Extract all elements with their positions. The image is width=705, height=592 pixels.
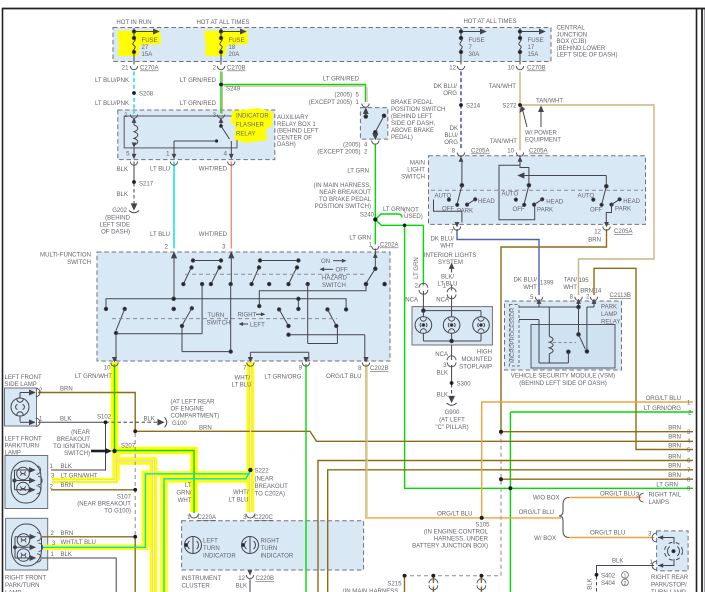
mfs pin2 entry [172, 253, 177, 258]
svg-text:(BEHIND LEFT SIDE OF DASH): (BEHIND LEFT SIDE OF DASH) [519, 381, 607, 387]
svg-text:(NEAR: (NEAR [255, 477, 274, 483]
cluster C220B connector [248, 570, 253, 575]
svg-text:OFF: OFF [336, 268, 348, 274]
svg-text:BREAKOUT: BREAKOUT [57, 437, 91, 443]
stoplamp bulb 2 [443, 317, 460, 334]
svg-text:BLK: BLK [61, 464, 72, 470]
svg-text:BLK: BLK [117, 167, 128, 173]
svg-text:G202: G202 [112, 208, 127, 214]
svg-text:LT BLU: LT BLU [229, 498, 249, 504]
mfs lower rails [116, 333, 202, 335]
svg-text:S102: S102 [97, 415, 112, 421]
svg-text:RELAY BOX 1: RELAY BOX 1 [277, 122, 316, 128]
svg-text:WHT/LT BLU: WHT/LT BLU [61, 540, 96, 546]
svg-text:NCA: NCA [436, 298, 450, 304]
svg-text:LT GRN/RED: LT GRN/RED [323, 77, 360, 83]
svg-text:HEAD: HEAD [623, 199, 640, 205]
wire lt blu stripe of org wire [367, 364, 369, 517]
svg-text:BOX (CJB): BOX (CJB) [557, 39, 587, 45]
fuse 7 [459, 28, 485, 65]
svg-text:SWITCH: SWITCH [401, 175, 425, 181]
wire BLK stoplamp pin2 into box [422, 291, 424, 311]
svg-text:BRN: BRN [668, 435, 681, 441]
svg-text:TURN: TURN [203, 546, 220, 552]
svg-text:TO BRAKE PEDAL: TO BRAKE PEDAL [319, 197, 372, 203]
wire WHT S207 branch to lamp pin3 [52, 452, 116, 481]
microprocessor box [510, 305, 520, 367]
wire LT GRN row9 branch down off-page [509, 488, 511, 592]
svg-text:NCA: NCA [435, 352, 449, 358]
svg-text:SWITCH): SWITCH) [64, 451, 90, 457]
svg-text:C205A: C205A [529, 149, 548, 155]
svg-text:PARK: PARK [457, 209, 473, 215]
node S240 [373, 217, 377, 221]
svg-text:WHT: WHT [178, 498, 192, 504]
svg-text:BRN: BRN [60, 387, 73, 393]
hl: S222 left to right front lamp pin3 [145, 471, 250, 476]
mfs pin3 entry [229, 253, 234, 258]
wire LT GRN stoplamp pin2 drop [422, 225, 424, 285]
stoplamp internals [422, 307, 481, 343]
svg-text:(BEHIND LOWER: (BEHIND LOWER [557, 46, 606, 52]
highlights [44, 30, 273, 592]
svg-text:BRN: BRN [668, 444, 681, 450]
svg-text:(EXCEPT 2005): (EXCEPT 2005) [309, 100, 352, 106]
svg-text:RELAY: RELAY [236, 132, 255, 138]
fuse 27 highlight [117, 30, 161, 56]
hl: MFS pin10 wire down to S207 [111, 362, 119, 451]
svg-text:HEAD: HEAD [478, 199, 495, 205]
node S207 [112, 449, 116, 453]
svg-text:ORG/LT BLU: ORG/LT BLU [600, 492, 635, 498]
svg-text:10: 10 [507, 149, 514, 155]
mfs dashed linkage 2 [112, 318, 337, 320]
svg-text:LT: LT [185, 483, 192, 489]
svg-text:BRAKE PEDAL: BRAKE PEDAL [391, 100, 434, 106]
svg-text:WHT/: WHT/ [235, 376, 251, 382]
flasher exits [133, 148, 135, 158]
high mounted stoplamp box [412, 307, 492, 345]
svg-text:TAN/: TAN/ [564, 278, 578, 284]
mls section3 [605, 176, 607, 187]
svg-text:G100: G100 [172, 421, 187, 427]
svg-text:LT BLU/PNK: LT BLU/PNK [95, 101, 129, 107]
mfs pin1 entry hazard [374, 252, 376, 269]
svg-text:LT BLU: LT BLU [232, 383, 252, 389]
ground G202 [129, 204, 139, 213]
svg-text:HOT AT ALL TIMES: HOT AT ALL TIMES [463, 19, 516, 25]
svg-text:20A: 20A [229, 52, 241, 58]
svg-text:FUSE: FUSE [469, 38, 485, 44]
svg-text:S214: S214 [466, 104, 481, 110]
svg-text:S249: S249 [226, 87, 241, 93]
svg-text:195: 195 [579, 278, 590, 284]
svg-text:USED): USED) [404, 214, 423, 220]
multi-function switch internals [104, 252, 386, 361]
svg-text:S240: S240 [360, 213, 375, 219]
svg-text:STOPLAMP: STOPLAMP [459, 365, 492, 371]
svg-text:COMPARTMENT): COMPARTMENT) [171, 413, 220, 419]
wire ORG/LT BLU row1 from right edge down to S105 [482, 402, 693, 518]
connector right rear lamp pin3 [652, 533, 656, 542]
mfs dashed linkage 1 [185, 273, 364, 275]
svg-text:BRN: BRN [61, 483, 74, 489]
svg-text:PARK/STOP/: PARK/STOP/ [651, 583, 687, 589]
connector C270B-10 [516, 66, 523, 70]
wire BLK S300 to G900 dashed [451, 384, 453, 399]
wire BRN left lamps vertical dashed segment [134, 433, 136, 537]
svg-text:CLUSTER: CLUSTER [182, 584, 211, 590]
svg-text:PEDAL): PEDAL) [391, 135, 413, 141]
svg-text:LT GRN/RED: LT GRN/RED [180, 78, 217, 84]
instrument cluster box [182, 521, 364, 570]
node S105 [480, 516, 484, 520]
svg-text:10: 10 [104, 366, 111, 372]
right front lamp pin wires [42, 536, 50, 538]
svg-text:AUTO: AUTO [435, 194, 452, 200]
connector BPP in [362, 104, 369, 108]
flasher coil [134, 125, 138, 145]
connector BPP out [372, 141, 379, 145]
svg-text:TURN: TURN [261, 546, 278, 552]
svg-text:MICROPROCESSOR: MICROPROCESSOR [510, 308, 516, 363]
svg-text:HARNESS, UNDER: HARNESS, UNDER [434, 537, 489, 543]
svg-text:12: 12 [449, 66, 456, 72]
svg-text:(AT LEFT REAR: (AT LEFT REAR [171, 399, 216, 405]
svg-text:OF DASH): OF DASH) [101, 230, 130, 236]
svg-text:W/O BOX: W/O BOX [533, 496, 560, 502]
svg-text:MULTI-FUNCTION: MULTI-FUNCTION [40, 253, 91, 259]
svg-text:LEFT FRONT: LEFT FRONT [5, 375, 42, 381]
svg-text:BLU/: BLU/ [445, 133, 459, 139]
node brn row junction at 501,431.7 [499, 430, 503, 434]
svg-text:(BEHIND: (BEHIND [105, 216, 130, 222]
hl: S207 down-left to left park lamp pin3 [112, 451, 120, 481]
BPP switch internals [364, 109, 386, 140]
svg-text:SWITCH: SWITCH [322, 283, 346, 289]
svg-text:SWITCH: SWITCH [67, 260, 91, 266]
node S240 right drop junction [403, 224, 407, 228]
node S300 [450, 381, 454, 385]
wire BRN row3 right [501, 431, 693, 433]
hl: S207 right white wire off-page [114, 461, 154, 592]
svg-text:LT GRN: LT GRN [656, 483, 678, 489]
svg-text:INTERIOR LIGHTS: INTERIOR LIGHTS [424, 253, 476, 259]
left front park/turn lamp bulb [11, 461, 41, 503]
svg-text:ORG/LT BLU: ORG/LT BLU [519, 510, 554, 516]
cluster left turn indicator bulb [185, 537, 202, 554]
svg-text:NCA: NCA [405, 298, 419, 304]
left front park/turn lamp box [5, 456, 48, 509]
svg-text:LT GRN: LT GRN [349, 236, 371, 242]
svg-text:LAMP: LAMP [601, 312, 617, 318]
svg-text:LT GRN/WHT: LT GRN/WHT [61, 474, 98, 480]
connector mls pin7 out [455, 222, 460, 227]
svg-text:BRN: BRN [61, 531, 74, 537]
svg-text:ORG: ORG [444, 140, 458, 146]
svg-text:(NEAR BREAKOUT: (NEAR BREAKOUT [77, 502, 131, 508]
right rear lamp wires to bulb [658, 538, 674, 545]
connector C270A [130, 66, 137, 70]
svg-text:GRN/: GRN/ [176, 491, 191, 497]
svg-text:S215: S215 [387, 582, 402, 588]
wire BRN relay out VSM pin2 to row5 [594, 268, 693, 449]
svg-text:BRN: BRN [668, 426, 681, 432]
wire DK BLU/ORG fuse7 to C205A-8 (dashed) [460, 72, 462, 151]
svg-text:(IN MAIN HARNESS,: (IN MAIN HARNESS, [314, 183, 372, 189]
svg-text:DASH): DASH) [277, 142, 296, 148]
svg-text:NEAR BREAKOUT: NEAR BREAKOUT [319, 190, 371, 196]
svg-text:27: 27 [142, 45, 149, 51]
svg-text:INDICATOR: INDICATOR [236, 114, 269, 120]
svg-text:BLK: BLK [588, 578, 594, 589]
svg-text:FLASHER: FLASHER [236, 123, 265, 129]
wire BRN below junction off-page [134, 537, 136, 592]
node S272 [518, 103, 522, 107]
svg-text:PARK: PARK [615, 206, 631, 212]
svg-text:PARK/TURN: PARK/TURN [5, 583, 40, 589]
wire WHT/LT BLU MFS pin7 to S222 to C220C [249, 364, 251, 513]
svg-text:LT GRN/RED: LT GRN/RED [180, 101, 217, 107]
hl: S207 to C220A [112, 451, 194, 513]
wire BLK cluster C220B down [249, 580, 251, 592]
svg-text:12: 12 [594, 230, 601, 236]
mfs turn contacts [104, 307, 107, 310]
svg-text:W/ POWER: W/ POWER [525, 131, 558, 137]
svg-text:LEFT SIDE OF DASH): LEFT SIDE OF DASH) [557, 53, 618, 59]
wire LT BLU/PNK fuse27 to flasher pin2 (dashed cyan) [133, 72, 135, 114]
svg-text:SYSTEM: SYSTEM [438, 260, 463, 266]
svg-text:S222: S222 [255, 469, 270, 475]
svg-text:C220C: C220C [254, 515, 273, 521]
svg-text:C270B: C270B [227, 66, 246, 72]
cluster right turn indicator bulb [242, 537, 259, 554]
svg-text:C220B: C220B [256, 576, 275, 582]
node S107 [133, 488, 137, 492]
svg-text:WHT: WHT [523, 285, 537, 291]
wire LT GRN not-used stub [375, 214, 398, 220]
node S402 [595, 573, 599, 577]
left front side lamp box [5, 388, 37, 426]
svg-text:30A: 30A [469, 52, 481, 58]
svg-text:(2005): (2005) [343, 143, 360, 149]
svg-text:EQUIPMENT: EQUIPMENT [525, 138, 561, 144]
wire ORG/LT BLU brace to right tail lamps [569, 497, 642, 499]
svg-text:BRN: BRN [199, 426, 212, 432]
svg-text:BLK: BLK [236, 584, 247, 590]
svg-text:(IN ENGINE CONTROL: (IN ENGINE CONTROL [424, 530, 489, 536]
mfs mid bus [106, 299, 346, 309]
VSM pin connectors [537, 299, 542, 304]
svg-text:LT BLU: LT BLU [150, 167, 170, 173]
svg-text:MOUNTED: MOUNTED [461, 357, 492, 363]
svg-text:PARK: PARK [601, 305, 617, 311]
hl: S222 second branch off-page [164, 479, 248, 592]
svg-text:WHT/RED: WHT/RED [199, 167, 228, 173]
wire BLK S217 to G202 (dashed) [133, 183, 135, 206]
svg-text:CENTRAL: CENTRAL [557, 26, 586, 32]
connector C205A-8 [457, 153, 464, 157]
svg-text:AUXILIARY: AUXILIARY [277, 115, 308, 121]
svg-text:S272: S272 [502, 104, 517, 110]
svg-text:14: 14 [595, 288, 602, 294]
S207 pointer arrow [91, 450, 107, 453]
wire BRN row7 [328, 470, 693, 592]
mfs top contact rows [193, 260, 221, 262]
mls linkage arrow line [522, 175, 607, 177]
wire BLK below S402 dashed [596, 576, 598, 592]
svg-text:18: 18 [229, 45, 236, 51]
svg-text:RIGHT: RIGHT [238, 313, 257, 319]
svg-text:ORG/LT BLU: ORG/LT BLU [590, 531, 625, 537]
svg-text:TAN/WHT: TAN/WHT [536, 99, 563, 105]
svg-text:INDICATOR: INDICATOR [261, 554, 294, 560]
svg-text:WHT: WHT [563, 285, 577, 291]
svg-text:PARK: PARK [537, 208, 553, 214]
flasher pin3 entry [217, 115, 224, 119]
stoplamp bulb 3 [473, 317, 490, 334]
svg-text:FUSE: FUSE [142, 38, 158, 44]
svg-text:HOT IN RUN: HOT IN RUN [116, 20, 151, 26]
svg-text:INSTRUMENT: INSTRUMENT [182, 576, 222, 582]
svg-text:ON: ON [321, 259, 330, 265]
svg-text:WHT/: WHT/ [233, 490, 249, 496]
svg-text:S402: S402 [601, 574, 616, 580]
svg-text:BLK: BLK [437, 371, 448, 377]
svg-text:VEHICLE SECURITY MODULE (VSM): VEHICLE SECURITY MODULE (VSM) [511, 374, 615, 380]
wire BRN row4 long from side lamp junction [135, 431, 693, 441]
svg-text:LT GRN: LT GRN [347, 169, 369, 175]
svg-text:RIGHT REAR: RIGHT REAR [651, 575, 689, 581]
node S217 [132, 180, 136, 184]
wire BLK side lamp pin1 to S102 to G100 [38, 421, 106, 423]
svg-text:PARK/TURN: PARK/TURN [5, 444, 40, 450]
fuse 27 [132, 28, 158, 65]
mls section2 feed rect [499, 165, 535, 220]
svg-text:ORG/LT BLU: ORG/LT BLU [646, 396, 681, 402]
stoplamp bulb 1 [415, 317, 432, 334]
right rear park/stop/turn lamp box [657, 531, 689, 571]
svg-text:10: 10 [508, 66, 515, 72]
svg-text:1: 1 [624, 573, 627, 579]
svg-text:DK BLU/: DK BLU/ [430, 237, 454, 243]
svg-text:(NEAR: (NEAR [71, 430, 90, 436]
wire BRN row8 [501, 478, 693, 480]
wire WHT/RED flasher pin4 to MFS pin3 [230, 162, 232, 249]
svg-text:BRN: BRN [588, 238, 601, 244]
wire WHT S207 right branch off-page [115, 461, 154, 592]
wire LT GRN/RED S249 to BPP switch [221, 85, 366, 103]
svg-text:SIDE LAMP: SIDE LAMP [5, 382, 37, 388]
svg-text:(NOT: (NOT [404, 208, 419, 214]
node S208 [132, 91, 136, 95]
svg-text:S105: S105 [475, 523, 490, 529]
node S214 [459, 103, 463, 107]
svg-text:RELAY: RELAY [601, 320, 620, 326]
svg-text:C202B: C202B [370, 366, 389, 372]
wire BRN S215 drops [404, 576, 406, 592]
svg-text:OF ENGINE: OF ENGINE [171, 406, 204, 412]
svg-text:C2113B: C2113B [610, 293, 631, 299]
svg-text:RIGHT TAIL: RIGHT TAIL [649, 493, 682, 499]
svg-text:FUSE: FUSE [229, 38, 245, 44]
svg-text:TO IGNITION: TO IGNITION [53, 444, 90, 450]
central junction box CJB [113, 28, 551, 62]
svg-text:WHT/RED: WHT/RED [199, 232, 228, 238]
svg-text:TAN/WHT: TAN/WHT [489, 84, 516, 90]
connector right tail lamps [639, 493, 643, 502]
connector C202A [372, 246, 379, 250]
connector C205A-10 [516, 153, 523, 157]
indicator flasher relay inner box [124, 116, 237, 148]
wire BLK flasher pin5 to S217 [133, 162, 135, 182]
w/ power equipment arrows [520, 107, 543, 128]
node brn row8 junction [499, 477, 503, 481]
svg-text:BLK: BLK [60, 417, 71, 423]
svg-text:LEFT FRONT: LEFT FRONT [5, 437, 42, 443]
node S215 dots [403, 574, 407, 578]
svg-text:BLK/: BLK/ [441, 275, 454, 281]
right front park/turn lamp box [6, 518, 48, 570]
svg-text:POSITION SWITCH): POSITION SWITCH) [315, 204, 371, 210]
svg-text:LT GRN/ORG: LT GRN/ORG [644, 406, 681, 412]
fuse 18 [219, 28, 245, 65]
main light switch box [429, 156, 646, 225]
wire BRN side lamp pin2 [38, 393, 135, 432]
node right lamp brn junction [133, 535, 137, 539]
svg-text:SWITCH: SWITCH [207, 321, 231, 327]
svg-text:INDICATOR: INDICATOR [203, 554, 236, 560]
svg-text:C270A: C270A [140, 66, 159, 72]
node S102 [104, 420, 108, 424]
svg-text:ORG/LT BLU: ORG/LT BLU [326, 374, 361, 380]
wire LT GRN BPP out to S240 [374, 144, 376, 245]
svg-text:(2005): (2005) [335, 93, 352, 99]
svg-text:(BEHIND LEFT: (BEHIND LEFT [277, 129, 319, 135]
svg-text:DK: DK [450, 126, 458, 132]
ground G900 [447, 396, 457, 405]
wire LT BLU S222 second branch off-page [164, 471, 250, 592]
svg-text:OFF: OFF [442, 206, 454, 212]
svg-text:S404: S404 [601, 581, 616, 587]
fuse 18 highlight [204, 30, 248, 56]
right rear lamp bulb [665, 542, 683, 560]
svg-text:DK BLU/: DK BLU/ [433, 84, 457, 90]
svg-text:S300: S300 [457, 382, 472, 388]
svg-text:LIGHT: LIGHT [407, 168, 425, 174]
wire BLK right front lamp pin1 off-page [50, 558, 117, 592]
wire LT GRN/ORG MFS pin9 off-page [305, 364, 307, 592]
svg-text:S217: S217 [139, 182, 154, 188]
svg-text:BRN: BRN [668, 455, 681, 461]
wire BLK interior lights arrow to stoplamp pin1 [451, 266, 453, 273]
svg-text:ORG: ORG [443, 91, 457, 97]
svg-text:CENTER OF: CENTER OF [277, 135, 312, 141]
svg-text:LT BLU/PNK: LT BLU/PNK [95, 78, 129, 84]
svg-text:AUTO: AUTO [578, 194, 595, 200]
node side lamp brn junction [133, 429, 137, 433]
svg-text:W/ BOX: W/ BOX [534, 536, 556, 542]
svg-text:15A: 15A [528, 52, 540, 58]
svg-text:BREAKOUT: BREAKOUT [255, 484, 289, 490]
svg-text:HIGH: HIGH [477, 350, 492, 356]
S215 drop connectors [429, 579, 438, 583]
wire BLK S102 down to left park lamp pin1 [51, 422, 106, 470]
svg-text:LT BLU: LT BLU [438, 282, 458, 288]
cluster connectors C220A C220C [190, 514, 199, 518]
svg-text:(BEHIND LEFT: (BEHIND LEFT [391, 114, 433, 120]
connector right rear lamp pin1 [652, 561, 656, 570]
